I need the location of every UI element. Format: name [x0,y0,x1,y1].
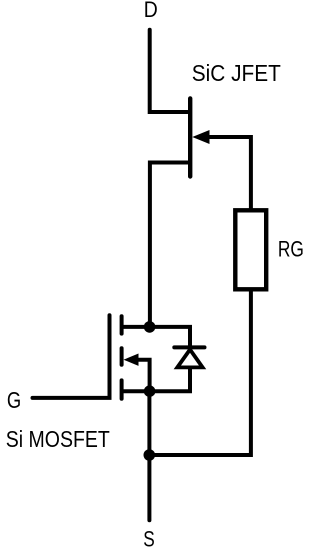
wire: source node down to terminal S [147,393,151,520]
arrowhead: JFET gate arrow [192,130,209,144]
wire: MOSFET body connection to source [138,360,150,389]
diode triangle (body diode) [177,350,202,368]
wire: JFET source lead down to MOSFET drain node [150,163,188,326]
wire: JFET gate to resistor RG top [210,137,251,209]
svg-text:G: G [7,387,21,413]
svg-text:RG: RG [278,237,304,262]
wire: MOSFET drain lead to diode cathode [123,327,190,346]
wire: resistor RG bottom down and left to source node [152,290,251,455]
diode cathode bar [174,345,204,349]
junction: MOSFET source / diode anode node [144,385,156,397]
resistor RG body [235,210,266,289]
junction: JFET source / MOSFET drain node [144,321,156,333]
transistor MOSFET channel segment middle (body) [120,348,124,365]
svg-text:S: S [143,527,155,551]
wire: drain terminal D down to JFET drain lead [150,30,188,112]
arrowhead: MOSFET body arrow [124,354,139,366]
transistor JFET channel bar [188,98,192,176]
svg-text:D: D [144,0,158,22]
svg-text:Si MOSFET: Si MOSFET [6,426,110,452]
junction: source node with RG return [144,449,156,461]
svg-text:SiC JFET: SiC JFET [192,60,281,86]
wire: gate terminal G lead and MOSFET gate bar [33,315,110,398]
transistor MOSFET channel segment bottom (source) [120,380,124,398]
wire: MOSFET source lead to diode anode [123,369,190,391]
transistor MOSFET channel segment top (drain) [120,316,124,333]
